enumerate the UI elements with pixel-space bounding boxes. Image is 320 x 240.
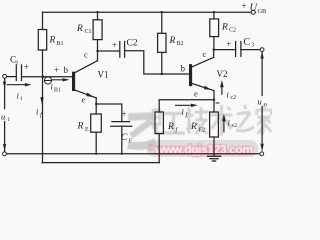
- svg-text:B1: B1: [54, 88, 61, 94]
- wire ground rail: [6, 153, 260, 155]
- svg-text:+: +: [122, 109, 127, 119]
- svg-text:R: R: [77, 122, 84, 132]
- wire RB2 top: [161, 12, 163, 33]
- wire RB1 bottom to base node: [42, 50, 44, 77]
- wire feedback bottom rail: [42, 162, 159, 164]
- svg-text:c: c: [203, 49, 207, 59]
- label ic2: [227, 90, 237, 102]
- watermark char gong: [162, 114, 185, 134]
- svg-text:R: R: [76, 24, 83, 34]
- wire RB2 bottom: [161, 52, 163, 74]
- svg-text:C2: C2: [229, 28, 236, 34]
- svg-text:+: +: [226, 39, 231, 49]
- wire output port upper: [261, 52, 263, 96]
- svg-text:R: R: [49, 36, 56, 46]
- svg-text:R: R: [221, 23, 228, 33]
- label if2: [182, 107, 189, 119]
- svg-text:E: E: [85, 127, 89, 133]
- wire base node down: [42, 77, 44, 163]
- svg-text:u: u: [1, 112, 5, 122]
- transistor V1: [73, 61, 98, 98]
- svg-text:R: R: [169, 36, 176, 46]
- watermark logo (stylized Z glyph): [128, 116, 156, 146]
- terminal output bottom: [260, 152, 264, 156]
- wire left port upper: [4, 78, 6, 108]
- arrow iB1: [52, 78, 70, 81]
- svg-text:F: F: [128, 137, 133, 144]
- arrow ui bottom: [3, 144, 6, 152]
- resistor RB2: [158, 33, 166, 52]
- label C3: [244, 37, 255, 49]
- svg-text:C1: C1: [85, 29, 92, 35]
- terminal supply: [251, 10, 255, 14]
- svg-text:3: 3: [251, 42, 254, 49]
- label iB1: [51, 82, 61, 94]
- wire emitter node to CE: [96, 104, 122, 122]
- wire left port lower: [4, 122, 6, 152]
- svg-text:+: +: [54, 65, 59, 75]
- arrow if down: [40, 97, 43, 104]
- arrow if2 right: [175, 104, 198, 107]
- wire RE bottom: [95, 132, 97, 154]
- watermark char jia: [257, 104, 272, 135]
- wire V2 emitter vertical: [213, 91, 215, 112]
- svg-text:E2: E2: [199, 127, 206, 133]
- svg-text:+: +: [112, 40, 117, 50]
- resistor RE2: [210, 112, 219, 137]
- ground: [208, 156, 221, 161]
- wire RB1 top: [42, 12, 44, 29]
- arrow ii: [7, 83, 32, 86]
- svg-text:V2: V2: [217, 69, 228, 79]
- label Rf: [167, 122, 179, 133]
- capacitor C1: [15, 65, 17, 81]
- watermark char zhi: [236, 105, 254, 131]
- svg-text:1: 1: [16, 61, 19, 67]
- wire CE bottom: [121, 126, 123, 154]
- svg-text:B2: B2: [177, 41, 184, 47]
- svg-text:B1: B1: [57, 41, 64, 47]
- watermark char ji: [186, 107, 209, 134]
- capacitor C2: [119, 42, 121, 58]
- resistor RB1: [38, 30, 46, 51]
- wire emitter node to RE: [95, 104, 97, 114]
- label RB1: [49, 36, 64, 47]
- svg-text:e: e: [194, 89, 198, 99]
- wire Rf bottom to feedback rail: [158, 134, 160, 163]
- wire collector node to C3: [214, 49, 236, 51]
- wire C3 to output terminal: [241, 49, 260, 51]
- resistor Rf: [155, 112, 163, 134]
- label ie2: [228, 118, 238, 130]
- wire RE2 bottom: [213, 137, 215, 156]
- arrow ui top: [3, 82, 6, 89]
- wire RC2 top: [213, 12, 215, 19]
- node summing circle: [44, 77, 51, 84]
- label if left: [36, 107, 43, 119]
- wire V1 collector vertical: [97, 40, 99, 61]
- svg-text:GB: GB: [258, 8, 267, 15]
- label RE: [77, 122, 90, 133]
- svg-text:b: b: [181, 64, 186, 74]
- wire V1 emitter vertical: [95, 98, 97, 104]
- svg-text:c: c: [84, 50, 88, 60]
- terminal input top: [3, 74, 7, 78]
- svg-text:C: C: [244, 37, 251, 48]
- watermark url pill www.dgjs123.com: [147, 140, 259, 157]
- transistor V2: [190, 57, 214, 90]
- resistor RE: [91, 114, 102, 132]
- resistor RC2: [210, 19, 219, 37]
- terminal input bottom: [3, 152, 7, 156]
- label RC1: [76, 24, 92, 35]
- svg-text:V1: V1: [98, 70, 109, 80]
- svg-text:C2: C2: [127, 39, 138, 49]
- arrow uo top: [260, 52, 263, 59]
- resistor RC1: [93, 20, 102, 40]
- wire V2 collector vertical: [213, 50, 215, 58]
- arrow uo bottom: [260, 144, 263, 153]
- label RE2: [190, 122, 205, 133]
- svg-text:e2: e2: [232, 123, 238, 129]
- capacitor CE: [112, 121, 130, 123]
- watermark char shu: [211, 105, 233, 136]
- wire input terminal to C1: [6, 76, 16, 78]
- svg-text:+: +: [24, 62, 29, 72]
- wire C2 to V2 base: [125, 51, 190, 74]
- svg-text:o: o: [264, 102, 267, 108]
- wire top supply rail: [43, 11, 252, 13]
- capacitor C3: [235, 42, 237, 57]
- wire RC2 bottom: [213, 37, 215, 50]
- arrow ie2 up: [222, 114, 226, 133]
- svg-text:C: C: [121, 133, 128, 143]
- wire output port lower: [261, 107, 263, 143]
- wire collector node to C2: [98, 50, 120, 52]
- svg-text:u: u: [258, 97, 262, 107]
- label +UGB: [242, 1, 267, 15]
- label RC2: [221, 23, 236, 34]
- svg-text:R: R: [167, 122, 174, 132]
- svg-text:+: +: [242, 1, 247, 11]
- label ui: [1, 112, 10, 124]
- wire feedback top horizontal: [159, 100, 214, 112]
- label C1: [10, 56, 19, 67]
- svg-text:c2: c2: [231, 95, 237, 101]
- label CF: [121, 133, 133, 144]
- terminal output top: [260, 48, 264, 52]
- svg-text:b: b: [64, 65, 69, 75]
- arrow ic2 up: [220, 80, 224, 95]
- label uo: [258, 97, 268, 109]
- label minus e2: [216, 102, 220, 104]
- watermark char dian: [153, 109, 162, 134]
- wire RC1 top: [97, 12, 99, 20]
- svg-text:R: R: [190, 122, 197, 132]
- label ii: [17, 91, 23, 103]
- wire C1 to V1 base: [22, 76, 73, 78]
- label RB2: [169, 36, 184, 47]
- svg-text:e: e: [82, 95, 86, 105]
